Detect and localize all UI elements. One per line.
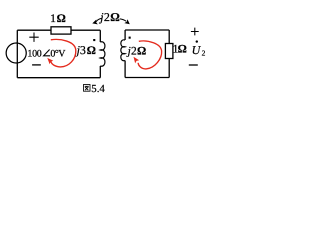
wire right-loop top <box>125 29 169 31</box>
wire left-loop bottom <box>17 77 100 79</box>
mutual coupling arrow left <box>96 18 101 21</box>
wire left-loop top <box>17 29 100 31</box>
svg-text:100: 100 <box>27 48 41 59</box>
svg-text:Ω: Ω <box>110 10 120 24</box>
angle symbol <box>44 50 51 56</box>
wire left-loop left <box>16 30 18 77</box>
svg-text:0°V: 0°V <box>50 48 66 59</box>
wire left-loop right (coil lead top) <box>99 30 101 42</box>
svg-text:Ω: Ω <box>57 13 66 25</box>
mesh current I2 arrow (red) <box>138 41 162 69</box>
wire right-loop bottom <box>125 77 169 79</box>
wire right-loop left (coil leads) <box>124 30 126 78</box>
inductor L2 coil (j2 ohm) <box>121 40 125 61</box>
svg-text:1: 1 <box>50 13 56 25</box>
L1 polarity dot <box>93 39 95 41</box>
svg-text:U: U <box>192 43 202 57</box>
svg-text:5.4: 5.4 <box>91 83 105 95</box>
svg-text:2: 2 <box>104 10 110 24</box>
output minus <box>189 64 198 66</box>
resistor R1 1ohm body <box>51 27 71 34</box>
output voltage U2 <box>196 40 198 42</box>
inductor L1 coil (j3 ohm) <box>100 42 105 66</box>
voltage source circle <box>6 43 26 63</box>
caption figure 5.4 (CJK tu glyph drawn) <box>84 85 91 92</box>
source polarity plus <box>29 33 38 42</box>
svg-text:Ω: Ω <box>178 44 187 56</box>
svg-text:Ω: Ω <box>137 46 146 58</box>
output plus <box>191 28 199 36</box>
wire right-loop right <box>168 30 170 78</box>
source polarity minus <box>32 64 41 66</box>
mutual coupling arrow right <box>120 19 126 21</box>
mesh current I1 arrow (red) <box>51 39 76 66</box>
wire left-loop right (coil lead bottom) <box>99 66 101 78</box>
svg-text:3: 3 <box>80 43 86 57</box>
svg-text:2: 2 <box>202 49 206 58</box>
svg-text:Ω: Ω <box>87 45 96 57</box>
resistor R2 1ohm body (load) <box>165 44 173 59</box>
L2 polarity dot <box>129 37 131 39</box>
